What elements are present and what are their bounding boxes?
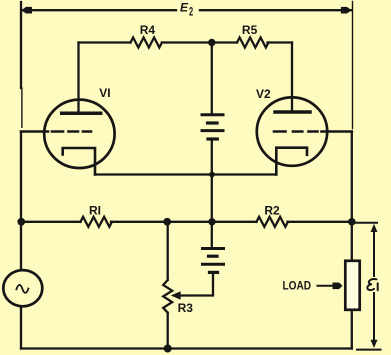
junction dot cathode bus xyxy=(209,172,215,178)
svg-text:V2: V2 xyxy=(256,87,271,101)
tube V1 plate xyxy=(62,112,101,116)
tube V2 cathode xyxy=(276,148,307,175)
tube V2 plate xyxy=(275,110,310,114)
wire: bottom bus xyxy=(21,347,352,349)
wire: B2 top lead xyxy=(211,222,213,249)
R3 wiper arrowhead xyxy=(171,291,181,300)
svg-text:E: E xyxy=(180,1,189,15)
battery B2 long plate top xyxy=(203,247,224,250)
svg-text:VI: VI xyxy=(99,86,110,100)
junction dot R3 top xyxy=(163,218,171,226)
battery B1 short plate xyxy=(208,121,218,124)
E1 arrowhead down xyxy=(371,340,378,348)
label E1 (script E) xyxy=(367,279,377,290)
wire: top plate bus xyxy=(79,41,293,43)
E2 arrowhead left xyxy=(21,7,32,14)
E1 dimension line top tick xyxy=(356,222,377,224)
AC source sine symbol xyxy=(16,285,28,293)
E1 dimension line lower shaft xyxy=(373,293,375,341)
E1 arrowhead up xyxy=(371,224,378,232)
junction dot R3 bottom xyxy=(164,345,172,353)
tube V1 envelope xyxy=(44,100,114,168)
svg-text:RI: RI xyxy=(89,203,101,217)
svg-text:R4: R4 xyxy=(140,23,156,37)
tube V1 cathode xyxy=(63,148,95,175)
wire: center column upper (to battery B1) xyxy=(211,43,213,115)
AC source circle xyxy=(3,270,42,306)
svg-text:R2: R2 xyxy=(264,204,280,218)
E2 arrowhead right xyxy=(341,7,352,14)
LOAD pointer shaft xyxy=(318,285,335,287)
E1 dimension line bottom tick xyxy=(357,349,381,351)
tube V2 envelope xyxy=(257,97,327,165)
junction dot middle bus right xyxy=(348,218,356,226)
potentiometer R3 body xyxy=(163,222,172,349)
E2 dimension line xyxy=(21,9,351,11)
resistor R5 xyxy=(237,38,268,48)
battery B1 long plate top xyxy=(202,113,223,116)
battery B2 short plate bottom xyxy=(210,271,218,274)
battery B1 long plate xyxy=(202,129,223,132)
battery B2 long plate xyxy=(203,263,224,266)
tube V1 grid xyxy=(21,130,91,133)
battery B1 short plate bottom xyxy=(208,137,217,140)
wire: V1 plate lead xyxy=(77,43,79,113)
battery B2 short plate xyxy=(209,255,218,258)
junction dot top center xyxy=(208,39,215,46)
E1 dimension line upper shaft xyxy=(373,230,375,276)
junction dot middle bus left xyxy=(17,218,25,226)
junction dot middle bus center xyxy=(208,218,215,225)
wire: left rail xyxy=(20,2,22,88)
svg-text:2: 2 xyxy=(189,6,193,19)
wire: center column mid (B1 to cathode bus to middle bus) xyxy=(211,139,213,222)
wire: B2 bottom lead to R3 wiper xyxy=(181,272,214,295)
wire: cathode bus xyxy=(95,173,276,175)
svg-text:R3: R3 xyxy=(178,301,194,315)
wire: right rail xyxy=(352,2,354,129)
LOAD pointer arrowhead xyxy=(333,283,343,290)
resistor R2 xyxy=(257,217,288,227)
svg-text:R5: R5 xyxy=(242,23,258,37)
tube V2 grid xyxy=(274,130,352,133)
wire: V2 plate lead xyxy=(291,43,293,111)
wire: middle bus (R1-R2 row) xyxy=(21,221,352,223)
resistor R1 xyxy=(81,217,112,227)
svg-text:LOAD: LOAD xyxy=(283,280,312,293)
resistor R4 xyxy=(131,38,162,48)
load resistor box xyxy=(345,261,359,310)
